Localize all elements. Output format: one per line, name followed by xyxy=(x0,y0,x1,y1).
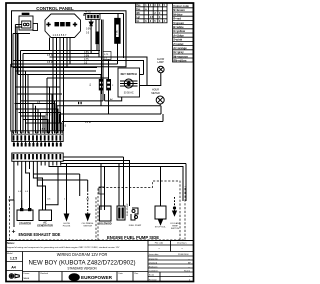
svg-text:Checked: Checked xyxy=(40,273,48,275)
fuel pump symbol E xyxy=(129,208,142,227)
glow plugs arrow xyxy=(66,214,68,217)
svg-text:0.5 G: 0.5 G xyxy=(45,115,51,117)
battery plus xyxy=(12,229,16,236)
svg-text:4.75: 4.75 xyxy=(85,9,91,13)
svg-text:Pg 1/1: Pg 1/1 xyxy=(184,270,191,272)
svg-text:AC: AC xyxy=(110,98,113,101)
svg-text:GLOW: GLOW xyxy=(63,223,71,225)
svg-text:N=brown: N=brown xyxy=(173,8,185,12)
lamp GL label xyxy=(157,58,165,64)
svg-text:PLUGS: PLUGS xyxy=(63,226,71,228)
gauge VDO tab xyxy=(22,13,30,15)
svg-text:Confident.: Confident. xyxy=(149,269,159,272)
key switch box xyxy=(118,68,140,97)
lamp 1 (glow) xyxy=(158,66,165,73)
fuse F2 xyxy=(107,60,111,115)
small label box xyxy=(103,52,111,60)
projection symbol xyxy=(9,274,19,278)
octagon drop wires xyxy=(49,38,51,51)
svg-text:Lgt: Lgt xyxy=(136,16,140,19)
svg-text:V=green: V=green xyxy=(173,21,184,25)
svg-text:SWITCH: SWITCH xyxy=(83,226,92,228)
dashed coolant wire xyxy=(174,197,176,211)
svg-text:Revision: Revision xyxy=(149,279,158,281)
border frame xyxy=(6,3,194,282)
title block xyxy=(6,241,194,282)
wire bus horizontals xyxy=(21,50,101,52)
svg-text:0.75: 0.75 xyxy=(84,59,89,61)
svg-text:0.5M: 0.5M xyxy=(84,56,89,58)
top-right grid table xyxy=(136,3,168,23)
svg-text:Replaces: Replaces xyxy=(149,266,158,268)
svg-text:STARTER: STARTER xyxy=(19,222,31,226)
left vertical bundle xyxy=(10,64,12,132)
svg-text:KEY SWITCH: KEY SWITCH xyxy=(121,72,137,76)
key switch wires from panel xyxy=(124,57,148,86)
svg-text:Wir: Wir xyxy=(136,13,140,15)
svg-text:Legend of wiring and component: Legend of wiring and components for gene… xyxy=(7,246,120,249)
svg-text:NEW BOY (KUBOTA Z482/D722/D902: NEW BOY (KUBOTA Z482/D722/D902) xyxy=(29,261,136,267)
octagon instrument cluster xyxy=(45,14,81,38)
colour code table xyxy=(173,3,194,62)
svg-text:0.5 M: 0.5 M xyxy=(85,122,91,124)
engine component box B (alternator) xyxy=(39,210,52,221)
svg-text:Drawing n.: Drawing n. xyxy=(177,242,187,245)
svg-text:FUEL PUMP: FUEL PUMP xyxy=(129,225,142,227)
svg-text:STANDARD VERSION: STANDARD VERSION xyxy=(68,267,98,271)
long bus lines xyxy=(15,104,56,134)
svg-text:STOP SOL.: STOP SOL. xyxy=(155,227,167,229)
relay component D xyxy=(117,203,129,220)
gauge (hour counter) xyxy=(13,16,38,34)
svg-text:Notes:: Notes: xyxy=(7,242,15,245)
svg-text:Pos: Pos xyxy=(136,5,141,7)
svg-text:SWITCH: SWITCH xyxy=(171,228,180,230)
engine dashed boxes xyxy=(10,181,186,240)
svg-text:7.5A: 7.5A xyxy=(115,30,118,35)
svg-text:Checked: Checked xyxy=(149,262,158,264)
box F xyxy=(155,206,167,229)
svg-text:SOLENOID: SOLENOID xyxy=(98,223,111,226)
engine fuel pump side label xyxy=(107,235,159,240)
svg-text:Rev.: Rev. xyxy=(135,273,139,275)
svg-text:M=blue: M=blue xyxy=(173,12,183,16)
octagon symbols xyxy=(46,22,77,37)
connector strip 1 xyxy=(12,131,63,142)
europower logo xyxy=(69,274,79,281)
svg-text:+: + xyxy=(12,229,16,236)
svg-text:ENGINE EXHAUST SIDE: ENGINE EXHAUST SIDE xyxy=(19,232,61,237)
svg-text:Colour code: Colour code xyxy=(173,4,189,8)
fuse F1 xyxy=(99,74,103,106)
svg-text:Scale: Scale xyxy=(149,275,155,277)
lamp1 bottom wires xyxy=(140,73,161,86)
svg-text:0.5N: 0.5N xyxy=(84,52,89,54)
lamp 2 xyxy=(156,96,164,122)
svg-text:COOLANT: COOLANT xyxy=(170,222,181,225)
engine fuel side: solenoid box xyxy=(99,206,111,221)
lamp 2 label (hour counter) xyxy=(151,89,160,95)
svg-text:METER: METER xyxy=(151,92,160,95)
svg-text:GENERATOR: GENERATOR xyxy=(37,225,53,228)
svg-text:ENGINE FUEL PUMP SIDE: ENGINE FUEL PUMP SIDE xyxy=(107,235,159,240)
svg-text:0.5M: 0.5M xyxy=(86,29,91,31)
connector strip 2 xyxy=(12,153,63,161)
svg-text:File code: File code xyxy=(155,243,164,245)
svg-text:1 2 3 4 5 6 7: 1 2 3 4 5 6 7 xyxy=(53,34,68,37)
svg-text:Drawn: Drawn xyxy=(24,273,30,275)
svg-text:WIRING DIAGRAM 12V FOR: WIRING DIAGRAM 12V FOR xyxy=(57,252,108,257)
svg-text:CONTROL PANEL: CONTROL PANEL xyxy=(36,6,74,11)
svg-text:0.5 N: 0.5 N xyxy=(47,55,53,57)
bus to engine right xyxy=(61,163,186,165)
svg-text:RN=rd/brn: RN=rd/brn xyxy=(173,58,187,62)
title CONTROL PANEL xyxy=(36,6,74,11)
svg-text:0.5 M: 0.5 M xyxy=(47,62,53,64)
small connector box in engine area xyxy=(99,187,105,194)
dashed optional wire xyxy=(87,190,89,214)
svg-text:FUEL PUMP: FUEL PUMP xyxy=(127,203,129,216)
mid verticals xyxy=(32,104,34,134)
control panel box xyxy=(12,11,127,67)
black bar component xyxy=(95,32,98,45)
fuse holder (black) xyxy=(115,18,120,64)
right table xyxy=(170,241,172,252)
top wire 4.75 xyxy=(85,9,91,13)
engine component box A (starter) xyxy=(17,210,33,221)
svg-text:Drawn by: Drawn by xyxy=(149,257,159,260)
wire labels tiny xyxy=(37,52,91,131)
connector block with pins xyxy=(86,14,100,20)
wires from strip2 down to engine components xyxy=(9,166,14,201)
diode symbol xyxy=(89,22,93,26)
svg-text:LAMP: LAMP xyxy=(157,61,164,64)
engine exhaust side label xyxy=(19,232,61,237)
svg-text:Fus: Fus xyxy=(136,9,141,11)
svg-text:30 50 AC: 30 50 AC xyxy=(124,92,134,95)
svg-text:EUROPOWER: EUROPOWER xyxy=(81,275,113,280)
svg-text:MASE: MASE xyxy=(24,277,30,280)
svg-text:1.2.5: 1.2.5 xyxy=(10,257,17,261)
strip1-strip2 stubs xyxy=(14,142,61,147)
nested return wires under key switch xyxy=(104,94,106,101)
title text xyxy=(29,252,136,271)
svg-text:Issue date: Issue date xyxy=(149,253,159,256)
bottom row cells xyxy=(39,272,133,282)
svg-text:Model: Model xyxy=(7,253,13,255)
svg-text:25/06/2004: 25/06/2004 xyxy=(178,254,189,256)
svg-text:A4: A4 xyxy=(11,266,16,270)
svg-text:OIL PRESS.: OIL PRESS. xyxy=(82,223,94,225)
strip2 lower stubs xyxy=(14,161,61,165)
